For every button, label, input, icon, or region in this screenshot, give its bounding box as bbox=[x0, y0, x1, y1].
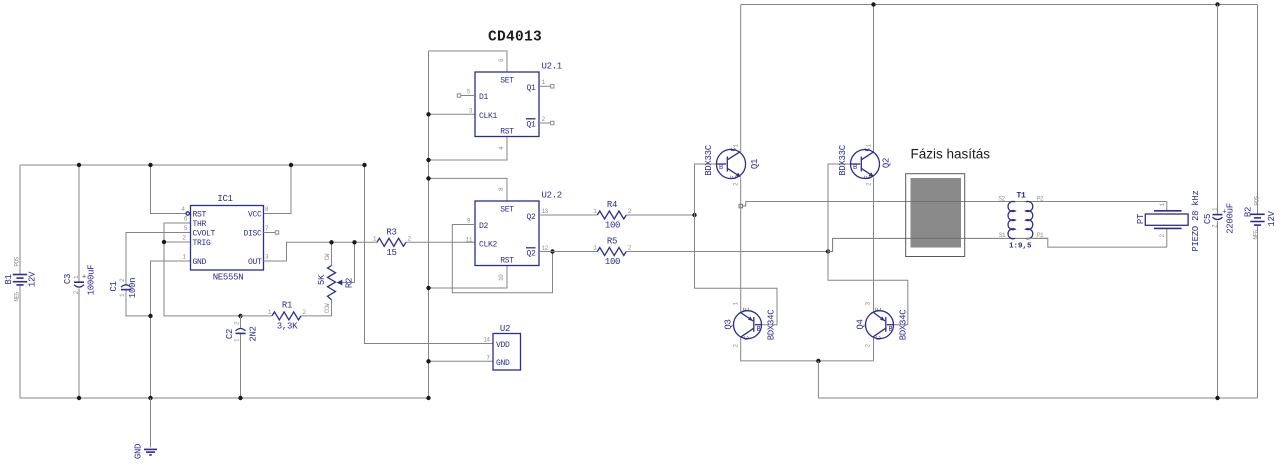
svg-text:SET: SET bbox=[500, 76, 514, 85]
svg-text:2N2: 2N2 bbox=[249, 326, 259, 341]
svg-text:VCC: VCC bbox=[248, 210, 262, 219]
svg-text:S1: S1 bbox=[999, 232, 1006, 239]
svg-text:R4: R4 bbox=[607, 200, 617, 210]
pin D1 stub pad bbox=[457, 94, 475, 97]
wire VDD net from top rail bbox=[365, 165, 494, 344]
svg-text:NE555N: NE555N bbox=[213, 273, 244, 283]
svg-text:E: E bbox=[876, 307, 884, 311]
svg-text:10: 10 bbox=[498, 274, 505, 281]
svg-text:2: 2 bbox=[733, 344, 740, 348]
piezo PT bbox=[1136, 190, 1201, 251]
svg-text:1000uF: 1000uF bbox=[87, 265, 97, 296]
svg-text:IC1: IC1 bbox=[217, 194, 232, 204]
svg-text:4: 4 bbox=[181, 206, 185, 213]
capacitor C3 bbox=[63, 165, 97, 398]
node junction C5 bottom rail bbox=[1215, 396, 1219, 400]
node junction RST1 bbox=[426, 158, 430, 162]
wire bottom rail right bbox=[818, 397, 1257, 399]
label Fazis hasitas title bbox=[911, 146, 991, 161]
pin Q1bar output stub pad bbox=[539, 121, 554, 124]
svg-text:B2: B2 bbox=[1244, 207, 1254, 217]
wire Q2 base net bbox=[828, 164, 908, 325]
svg-text:8: 8 bbox=[265, 206, 269, 213]
svg-text:GND: GND bbox=[134, 444, 144, 459]
svg-text:PT: PT bbox=[1136, 213, 1146, 224]
capacitor C2 bbox=[225, 316, 259, 398]
svg-text:RST: RST bbox=[500, 128, 514, 137]
capacitor C5 bbox=[1203, 5, 1236, 399]
svg-text:C: C bbox=[876, 336, 884, 340]
node junction U2 GND bbox=[426, 359, 430, 363]
svg-text:E: E bbox=[744, 307, 752, 311]
svg-text:2: 2 bbox=[865, 344, 872, 348]
node junction collector tap bbox=[816, 359, 820, 363]
svg-text:2200uF: 2200uF bbox=[1226, 203, 1236, 234]
node junction C3 bottom rail bbox=[77, 396, 81, 400]
battery B2 bbox=[1244, 5, 1278, 399]
transistor Q4 BDX34C bbox=[856, 302, 909, 361]
svg-text:BDX34C: BDX34C bbox=[899, 309, 909, 341]
svg-text:2: 2 bbox=[628, 245, 632, 252]
wire OUT net bbox=[264, 242, 377, 261]
node junction GND line bottom rail bbox=[148, 396, 152, 400]
flip-flop U2.1 bbox=[467, 58, 562, 150]
svg-text:5: 5 bbox=[467, 88, 471, 95]
svg-text:2: 2 bbox=[542, 116, 546, 123]
svg-text:2: 2 bbox=[408, 235, 412, 242]
capacitor C1 bbox=[109, 233, 190, 316]
svg-text:B: B bbox=[719, 164, 723, 172]
block phase splitter gray box bbox=[906, 174, 965, 257]
wire Q3 base net bbox=[695, 215, 778, 325]
node junction R4 base net bbox=[692, 213, 696, 217]
svg-text:1: 1 bbox=[373, 235, 377, 242]
svg-text:9: 9 bbox=[467, 217, 471, 224]
wire P1 net to piezo bottom bbox=[1026, 238, 1167, 247]
svg-text:14: 14 bbox=[483, 337, 490, 344]
svg-text:OUT: OUT bbox=[248, 258, 262, 267]
wire bottom rail left bbox=[20, 397, 429, 399]
wire SET2 net bbox=[429, 178, 508, 201]
svg-text:NEG: NEG bbox=[1253, 229, 1260, 239]
svg-text:CLK2: CLK2 bbox=[479, 240, 498, 249]
svg-text:1: 1 bbox=[593, 208, 597, 215]
wire top rail right bbox=[741, 4, 1258, 6]
svg-text:100: 100 bbox=[605, 221, 620, 231]
svg-text:+: + bbox=[82, 274, 86, 282]
svg-text:1: 1 bbox=[593, 245, 597, 252]
svg-text:C5: C5 bbox=[1203, 214, 1213, 224]
svg-text:12: 12 bbox=[542, 245, 549, 252]
svg-text:Q1: Q1 bbox=[750, 159, 760, 169]
node junction top rail RST bbox=[148, 163, 152, 167]
node junction CLK1 bbox=[426, 112, 430, 116]
svg-text:B: B bbox=[757, 326, 761, 334]
op-amp IC1 NE555N box bbox=[181, 194, 269, 283]
svg-text:C1: C1 bbox=[109, 281, 119, 291]
svg-text:CCW: CCW bbox=[324, 303, 331, 313]
svg-text:3: 3 bbox=[265, 254, 269, 261]
svg-text:C3: C3 bbox=[63, 274, 73, 284]
wire RST1 net bbox=[429, 137, 508, 161]
node junction R2 top bbox=[329, 240, 333, 244]
svg-text:13: 13 bbox=[542, 208, 549, 215]
wire THR TRIG net bbox=[164, 223, 241, 316]
svg-text:1: 1 bbox=[182, 254, 186, 261]
label CD4013 title bbox=[488, 30, 542, 46]
svg-text:Q1: Q1 bbox=[526, 84, 536, 93]
node junction gnd line bottom rail bbox=[426, 396, 430, 400]
svg-text:R5: R5 bbox=[607, 237, 617, 247]
wire VCC net bbox=[264, 165, 292, 214]
svg-text:7: 7 bbox=[265, 225, 269, 232]
resistor R4 bbox=[539, 200, 695, 231]
pin Q1 emitter tap square bbox=[739, 202, 746, 208]
svg-text:R1: R1 bbox=[282, 301, 292, 311]
svg-text:NEG: NEG bbox=[14, 291, 21, 301]
transformer T1 bbox=[998, 192, 1044, 251]
svg-text:Q3: Q3 bbox=[724, 319, 734, 329]
svg-text:4: 4 bbox=[498, 146, 505, 150]
svg-text:Q1: Q1 bbox=[526, 121, 536, 130]
svg-text:U2.2: U2.2 bbox=[542, 191, 562, 201]
node junction top rail C3 bbox=[77, 163, 81, 167]
svg-text:6: 6 bbox=[184, 216, 188, 223]
svg-text:2: 2 bbox=[733, 182, 740, 186]
wire S1 feedback jog bbox=[828, 238, 1048, 251]
svg-text:BDX34C: BDX34C bbox=[767, 309, 777, 341]
resistor R5 bbox=[539, 237, 828, 268]
svg-text:CW: CW bbox=[324, 253, 331, 260]
svg-text:BDX33C: BDX33C bbox=[838, 144, 848, 176]
node junction SET2 bbox=[426, 176, 430, 180]
svg-text:D1: D1 bbox=[479, 93, 489, 102]
svg-text:1: 1 bbox=[733, 302, 740, 306]
svg-text:1: 1 bbox=[268, 309, 272, 316]
svg-text:POS: POS bbox=[1254, 195, 1261, 205]
flip-flop U2.2 bbox=[466, 187, 562, 281]
svg-text:E: E bbox=[731, 175, 739, 179]
svg-text:Q2: Q2 bbox=[882, 158, 892, 168]
svg-text:VDD: VDD bbox=[496, 341, 510, 350]
node junction RST2 bbox=[426, 286, 430, 290]
svg-text:6: 6 bbox=[498, 58, 505, 62]
svg-text:DISC: DISC bbox=[243, 229, 262, 238]
svg-text:3,3K: 3,3K bbox=[277, 322, 298, 332]
svg-text:CLK1: CLK1 bbox=[479, 112, 498, 121]
svg-text:1: 1 bbox=[542, 79, 546, 86]
pin Q1 output stub pad bbox=[539, 85, 554, 88]
node junction top rail end bbox=[362, 163, 366, 167]
svg-text:CVOLT: CVOLT bbox=[193, 229, 216, 238]
svg-text:B: B bbox=[889, 326, 893, 334]
svg-text:1:9,5: 1:9,5 bbox=[1009, 243, 1032, 251]
svg-text:GND: GND bbox=[193, 258, 207, 267]
svg-text:2: 2 bbox=[628, 208, 632, 215]
svg-text:D2: D2 bbox=[479, 222, 489, 231]
svg-text:RST: RST bbox=[193, 210, 207, 219]
wire U2 GND net bbox=[429, 360, 494, 362]
node junction Q2bar D2 R5 bbox=[550, 249, 554, 253]
svg-text:BDX33C: BDX33C bbox=[704, 144, 714, 176]
svg-text:U2: U2 bbox=[500, 324, 510, 334]
svg-text:POS: POS bbox=[14, 256, 21, 266]
transistor Q3 BDX34C bbox=[724, 302, 874, 361]
wire Q1 base net bbox=[695, 164, 717, 215]
svg-text:SET: SET bbox=[500, 205, 514, 214]
power block U2 VDD GND bbox=[483, 324, 520, 370]
svg-text:2: 2 bbox=[1159, 234, 1166, 238]
svg-text:1: 1 bbox=[1159, 203, 1166, 207]
svg-text:3: 3 bbox=[469, 107, 473, 114]
node junction top rail Q2 bbox=[871, 2, 875, 6]
svg-text:T1: T1 bbox=[1016, 192, 1026, 201]
wire SET1 net bbox=[429, 51, 508, 72]
svg-text:2: 2 bbox=[119, 278, 126, 282]
node junction THR/C2/R1 bbox=[238, 314, 242, 318]
svg-text:1: 1 bbox=[733, 144, 740, 148]
svg-text:R2: R2 bbox=[345, 278, 355, 288]
svg-text:11: 11 bbox=[466, 236, 473, 243]
svg-text:12V: 12V bbox=[1267, 210, 1277, 226]
battery B1 bbox=[4, 165, 38, 398]
transistor Q1 BDX33C bbox=[704, 5, 760, 312]
svg-text:C: C bbox=[744, 336, 752, 340]
svg-text:S2: S2 bbox=[998, 196, 1005, 203]
svg-text:U2.1: U2.1 bbox=[542, 62, 562, 72]
node junction R2 wiper bbox=[352, 240, 356, 244]
svg-text:R3: R3 bbox=[386, 227, 396, 237]
svg-text:Q4: Q4 bbox=[856, 319, 866, 329]
svg-text:GND: GND bbox=[496, 359, 510, 368]
svg-text:Q2: Q2 bbox=[526, 250, 536, 259]
svg-text:THR: THR bbox=[193, 220, 207, 229]
svg-text:15: 15 bbox=[386, 248, 396, 258]
svg-text:PIEZO 28 kHz: PIEZO 28 kHz bbox=[1191, 190, 1201, 251]
svg-text:1: 1 bbox=[119, 293, 126, 297]
ground GND symbol bbox=[134, 398, 157, 459]
node junction C2 bottom rail bbox=[238, 396, 242, 400]
svg-text:2: 2 bbox=[182, 235, 186, 242]
svg-text:Q2: Q2 bbox=[526, 213, 536, 222]
pin DISC stub pad bbox=[264, 231, 279, 234]
node junction TRIG bbox=[162, 240, 166, 244]
potentiometer R2 5K bbox=[317, 242, 355, 313]
wire GND pin net bbox=[151, 261, 191, 398]
wire output net to transformer S2 bbox=[746, 201, 1167, 203]
wire RST net bbox=[151, 165, 186, 214]
wire center tap to bottom rail bbox=[817, 361, 819, 398]
node junction top rail VCC bbox=[289, 163, 293, 167]
svg-text:TRIG: TRIG bbox=[193, 239, 212, 248]
resistor R3 bbox=[373, 227, 475, 258]
node junction C1 to GND line bbox=[148, 314, 152, 318]
node junction top rail C5 bbox=[1215, 2, 1219, 6]
svg-text:100n: 100n bbox=[128, 278, 138, 298]
svg-text:P2: P2 bbox=[1037, 196, 1044, 203]
wire +12V top rail left bbox=[20, 164, 365, 166]
svg-text:5K: 5K bbox=[317, 274, 327, 285]
svg-text:7: 7 bbox=[486, 354, 490, 361]
svg-text:Fázis hasítás: Fázis hasítás bbox=[911, 146, 991, 161]
svg-text:2: 2 bbox=[234, 321, 241, 325]
wire CD4013 ground line bbox=[428, 51, 430, 398]
transistor Q2 BDX33C bbox=[838, 5, 892, 312]
svg-text:1: 1 bbox=[866, 144, 873, 148]
svg-text:E: E bbox=[865, 175, 873, 179]
svg-text:100: 100 bbox=[605, 257, 620, 267]
wire D2 feedback net bbox=[452, 225, 552, 293]
svg-text:B1: B1 bbox=[4, 274, 14, 284]
node junction R5 base net bbox=[826, 249, 830, 253]
wire RST2 net bbox=[429, 266, 508, 289]
svg-text:CD4013: CD4013 bbox=[488, 30, 542, 46]
resistor R1 bbox=[241, 300, 332, 332]
svg-text:2: 2 bbox=[866, 182, 873, 186]
svg-text:2: 2 bbox=[303, 309, 307, 316]
svg-text:RST: RST bbox=[500, 257, 514, 266]
svg-text:3: 3 bbox=[865, 302, 872, 306]
wire CLK1 net bbox=[429, 113, 476, 115]
svg-text:8: 8 bbox=[498, 187, 505, 191]
svg-text:C2: C2 bbox=[225, 329, 235, 339]
svg-text:B: B bbox=[853, 164, 857, 172]
svg-text:5: 5 bbox=[184, 225, 188, 232]
svg-text:12V: 12V bbox=[28, 271, 38, 287]
